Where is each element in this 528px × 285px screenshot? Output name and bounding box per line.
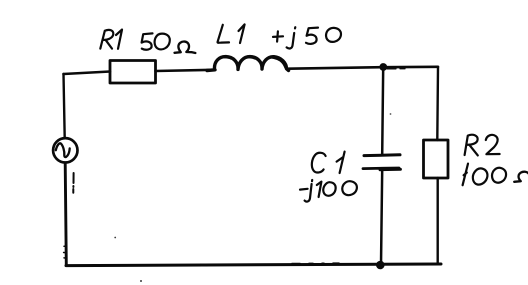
wire R2 branch bottom vertical [437,178,439,264]
resistor R1 [110,61,156,84]
wire left vertical above source [64,74,65,138]
inductor L1 crest thickening [220,57,286,67]
wire R2 branch top vertical [436,67,439,140]
wire R1 to L1 [156,70,215,71]
stray ink speck upper [114,237,116,239]
resistor R2 [424,140,449,178]
inductor L1 [207,57,289,71]
label 50 value of R1 [142,33,170,49]
pen roughness above bottom wire [292,262,339,264]
pen roughness after top junction [387,68,405,70]
label ohm symbol of R2 (cut at edge) [514,172,528,182]
label R2 [465,135,500,156]
source V1 sine mark [56,143,70,157]
label -j100 value of C1 [300,180,357,202]
label R1 [100,30,122,49]
label 100 value of R2 [463,164,506,186]
wire capacitor branch top vertical [382,67,383,155]
capacitor C1 bottom plate [363,168,401,170]
capacitor C1 top plate [364,153,400,157]
node bottom junction dot [376,261,385,270]
source V1 circle [53,138,77,162]
label C1 [312,152,345,173]
stray ink speck lower [140,280,142,282]
label L1 [218,24,245,43]
wire top-left horizontal (source to R1) [64,72,111,75]
node top junction dot [379,63,387,71]
wire bottom horizontal [66,264,441,266]
stray ink speck near capacitor branch [390,113,392,115]
wire L1 to top-right [288,67,438,69]
current dash-dot mark below source [72,173,74,193]
pen hesitation ticks on left wire [64,246,66,258]
wire left vertical below source [65,163,66,266]
label +j50 value of L1 [273,27,341,48]
label ohm symbol of R1 [175,42,196,53]
wire capacitor branch bottom vertical [381,170,382,266]
